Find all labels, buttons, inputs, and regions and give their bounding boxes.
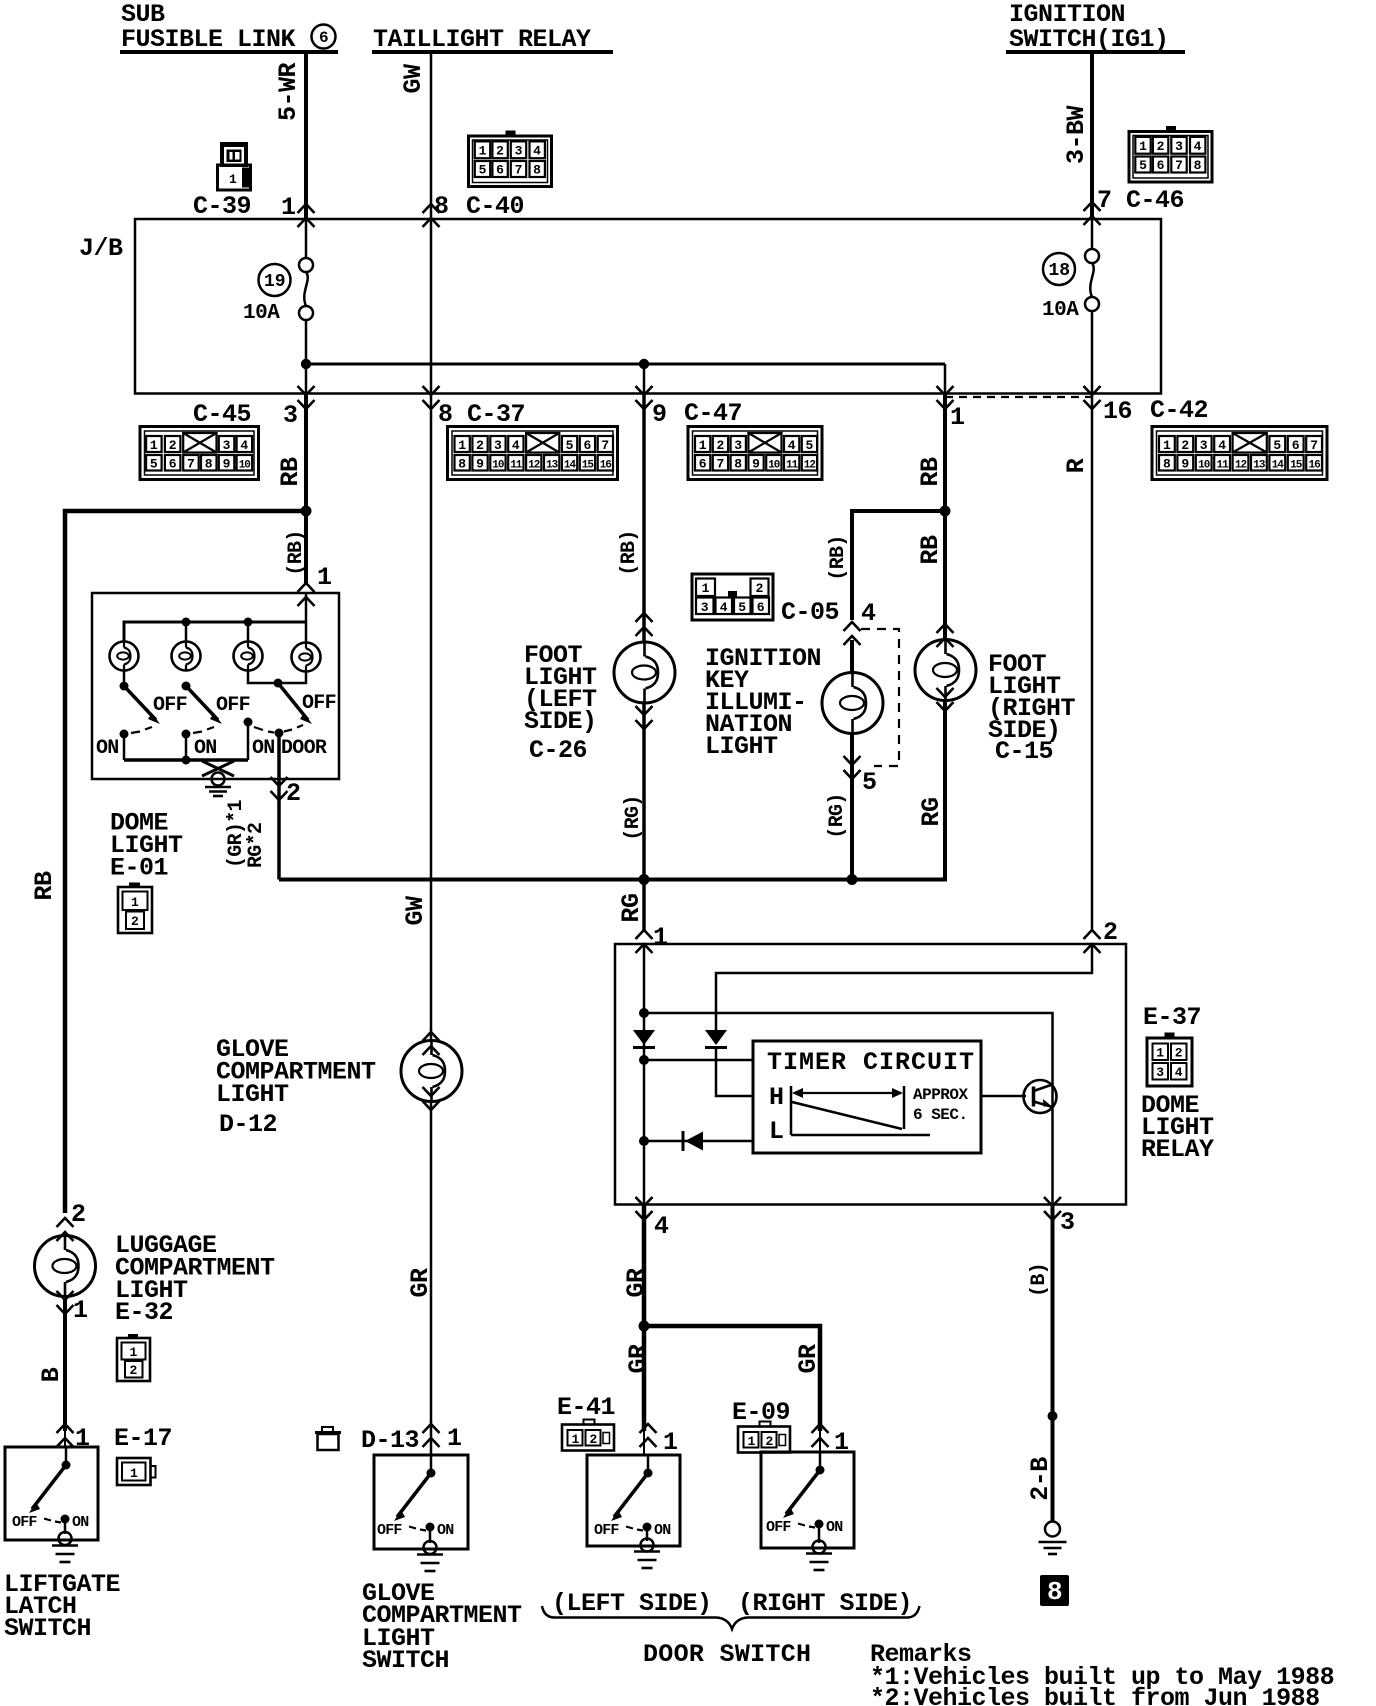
ignition key illumination bulb [850, 640, 854, 673]
dome bottom bus [124, 758, 248, 762]
svg-text:1: 1 [663, 1428, 678, 1457]
connector E-17 icon [117, 1458, 156, 1485]
svg-text:(RG): (RG) [826, 793, 849, 838]
svg-text:C-46: C-46 [1126, 186, 1184, 215]
svg-text:11: 11 [1216, 460, 1229, 472]
svg-text:APPROX: APPROX [913, 1086, 969, 1104]
svg-text:SWITCH: SWITCH [4, 1614, 91, 1643]
svg-text:2: 2 [71, 1200, 86, 1229]
svg-text:RELAY: RELAY [1141, 1135, 1214, 1164]
svg-text:5: 5 [150, 457, 158, 472]
brace [542, 1606, 920, 1629]
svg-text:DOOR: DOOR [281, 737, 327, 760]
svg-text:3: 3 [283, 401, 298, 430]
svg-text:1: 1 [1163, 438, 1171, 453]
dome light relay box [615, 944, 1126, 1205]
label LIFTGATE LATCH SWITCH [4, 1570, 120, 1643]
transistor Q1 [981, 1080, 1057, 1113]
label DOME LIGHT E-01 [110, 809, 183, 883]
svg-text:9: 9 [652, 400, 667, 429]
svg-text:RB: RB [30, 871, 59, 901]
svg-text:H: H [769, 1083, 784, 1112]
svg-text:1: 1 [653, 923, 668, 952]
svg-text:2: 2 [756, 581, 764, 596]
ground E-09 [806, 1554, 832, 1571]
svg-text:4: 4 [654, 1212, 669, 1241]
svg-text:13: 13 [546, 460, 559, 472]
svg-text:B: B [37, 1367, 66, 1382]
svg-text:8: 8 [438, 400, 453, 429]
svg-text:3: 3 [1175, 139, 1183, 154]
svg-text:1: 1 [281, 193, 296, 222]
svg-text:DOOR SWITCH: DOOR SWITCH [643, 1640, 811, 1669]
connector E-41 icon [562, 1420, 614, 1451]
svg-text:RB: RB [916, 457, 945, 487]
svg-text:11: 11 [510, 460, 523, 472]
svg-text:1: 1 [1156, 1046, 1164, 1061]
glove compartment light bulb D-12 [423, 1032, 440, 1055]
svg-text:*2:Vehicles built from Jun 198: *2:Vehicles built from Jun 1988 [870, 1684, 1320, 1706]
svg-text:E-41: E-41 [557, 1393, 615, 1422]
svg-text:2: 2 [1181, 438, 1189, 453]
svg-text:5: 5 [566, 438, 574, 453]
label TAILLIGHT RELAY [372, 25, 613, 54]
svg-text:5: 5 [1273, 438, 1281, 453]
svg-text:1: 1 [317, 563, 332, 592]
svg-text:C-05: C-05 [781, 598, 839, 627]
svg-text:7: 7 [187, 457, 195, 472]
svg-text:5: 5 [479, 163, 487, 178]
svg-text:C-37: C-37 [467, 400, 525, 429]
svg-text:SIDE): SIDE) [524, 707, 597, 736]
svg-text:GW: GW [401, 896, 430, 926]
svg-text:1: 1 [130, 1466, 138, 1481]
dome bulb 1 [110, 642, 139, 671]
svg-text:5: 5 [738, 600, 746, 615]
svg-text:1: 1 [572, 1432, 580, 1447]
svg-text:L: L [769, 1117, 784, 1146]
foot light (left side) bulb C-26 [614, 642, 675, 703]
svg-text:12: 12 [1235, 460, 1247, 472]
wire RB from C-42 pin 1 [943, 394, 947, 642]
svg-text:RG: RG [617, 893, 646, 922]
svg-text:8: 8 [434, 192, 449, 221]
ground terminal bottom right [1039, 1522, 1067, 1555]
svg-text:C-26: C-26 [529, 736, 587, 765]
svg-text:6: 6 [699, 457, 707, 472]
wire inside J/B left [305, 219, 308, 258]
liftgate latch switch box [5, 1447, 98, 1540]
svg-text:9: 9 [752, 457, 760, 472]
svg-text:C-15: C-15 [995, 737, 1053, 766]
connector E-37 icon [1147, 1033, 1192, 1087]
relay pin 1 [642, 880, 646, 931]
wire GR down to D-13 [430, 1102, 433, 1456]
svg-text:1: 1 [130, 1345, 138, 1360]
svg-text:1: 1 [229, 172, 237, 187]
wire inside J/B right [1091, 219, 1094, 249]
svg-text:RB: RB [276, 457, 305, 487]
svg-text:1: 1 [447, 1424, 462, 1453]
svg-text:10: 10 [768, 460, 780, 472]
dome switch 3 (door) [244, 683, 336, 760]
svg-text:10: 10 [1198, 460, 1210, 472]
svg-text:D-13: D-13 [361, 1426, 419, 1455]
svg-text:SWITCH(IG1): SWITCH(IG1) [1009, 25, 1169, 54]
svg-text:6: 6 [583, 438, 591, 453]
svg-text:GR: GR [624, 1344, 653, 1374]
wire 3-BW from ignition switch [1090, 52, 1094, 219]
svg-text:C-40: C-40 [466, 192, 524, 221]
svg-text:2: 2 [130, 1363, 138, 1378]
label DOME LIGHT RELAY [1141, 1091, 1214, 1164]
wire B to liftgate switch [63, 1297, 67, 1431]
svg-text:4: 4 [1218, 438, 1226, 453]
wire GR branch to right door switch [644, 1326, 820, 1431]
svg-text:6 SEC.: 6 SEC. [913, 1106, 968, 1124]
diode D2 [705, 1030, 727, 1048]
svg-text:7: 7 [1310, 438, 1318, 453]
junction node RB [301, 506, 312, 517]
svg-text:J/B: J/B [79, 234, 123, 263]
svg-text:15: 15 [582, 460, 595, 472]
svg-text:7: 7 [1175, 158, 1183, 173]
svg-text:SWITCH: SWITCH [362, 1646, 449, 1675]
svg-text:C-47: C-47 [684, 399, 742, 428]
svg-text:8: 8 [205, 457, 213, 472]
svg-text:6: 6 [169, 457, 177, 472]
svg-text:(RG): (RG) [622, 795, 645, 840]
ground reference box 8 [1040, 1575, 1069, 1607]
svg-text:8: 8 [458, 457, 466, 472]
dome bulb 4 [305, 622, 308, 643]
connector C-37 grid [448, 427, 618, 480]
svg-text:6: 6 [757, 600, 765, 615]
svg-text:E-17: E-17 [114, 1424, 172, 1453]
dome case ground [202, 761, 234, 796]
svg-text:OFF: OFF [153, 694, 187, 717]
svg-text:3: 3 [1156, 1065, 1164, 1080]
svg-text:8: 8 [1163, 457, 1171, 472]
dome bulb 2 [185, 622, 188, 642]
svg-text:10A: 10A [1042, 299, 1079, 322]
ground E-41 [634, 1552, 660, 1569]
svg-text:1: 1 [702, 581, 710, 596]
svg-text:10: 10 [239, 460, 251, 472]
svg-text:(RIGHT SIDE): (RIGHT SIDE) [738, 1589, 912, 1618]
wire GW through J/B [430, 219, 433, 394]
svg-text:8: 8 [1194, 158, 1202, 173]
svg-text:1: 1 [458, 438, 466, 453]
svg-text:GR: GR [794, 1344, 823, 1374]
svg-text:2-B: 2-B [1026, 1457, 1055, 1501]
svg-text:(RB): (RB) [827, 535, 850, 580]
svg-text:1: 1 [748, 1434, 756, 1449]
svg-text:8: 8 [734, 457, 742, 472]
svg-text:5-WR: 5-WR [274, 63, 303, 122]
relay pin 3 [1044, 1197, 1061, 1220]
svg-text:LIGHT: LIGHT [216, 1080, 289, 1109]
bus bar inside J/B [306, 363, 945, 366]
timer graph [791, 1086, 930, 1135]
glove compartment light switch box [374, 1455, 468, 1549]
svg-text:OFF: OFF [302, 692, 336, 715]
svg-text:C-39: C-39 [193, 192, 251, 221]
svg-text:1: 1 [479, 144, 487, 159]
wire GR from relay pin 4 [642, 1205, 647, 1432]
svg-text:3: 3 [734, 438, 742, 453]
label FOOT LIGHT (RIGHT SIDE) C-15 [988, 650, 1076, 766]
svg-text:6: 6 [319, 29, 328, 47]
connector E-01 icon [118, 883, 152, 934]
svg-text:1: 1 [150, 438, 158, 453]
svg-text:C-45: C-45 [193, 400, 251, 429]
svg-text:OFF: OFF [216, 694, 250, 717]
svg-text:4: 4 [240, 438, 248, 453]
svg-text:2: 2 [131, 914, 139, 929]
door switch left box [587, 1455, 680, 1546]
svg-text:1: 1 [75, 1424, 90, 1453]
svg-text:8: 8 [533, 163, 541, 178]
svg-text:10: 10 [492, 460, 504, 472]
connector C-05 icon [692, 574, 773, 620]
svg-text:1: 1 [699, 438, 707, 453]
connector C-42 grid [1152, 427, 1327, 480]
svg-text:14: 14 [564, 460, 577, 472]
svg-text:GR: GR [406, 1268, 435, 1298]
junction node RB right [940, 506, 951, 517]
fuse 19 10A [299, 258, 313, 320]
svg-text:2: 2 [716, 438, 724, 453]
svg-text:5: 5 [862, 768, 877, 797]
svg-text:9: 9 [223, 457, 231, 472]
svg-text:18: 18 [1049, 261, 1071, 281]
connector C-39 icon [218, 142, 251, 190]
svg-text:12: 12 [804, 460, 816, 472]
ground D-13 [417, 1555, 443, 1572]
svg-text:2: 2 [766, 1434, 774, 1449]
svg-text:16: 16 [1103, 397, 1132, 426]
svg-text:3: 3 [1200, 438, 1208, 453]
svg-text:C-42: C-42 [1150, 396, 1208, 425]
label IGNITION KEY ILLUMINATION LIGHT [705, 644, 821, 761]
dome light E-01 box [92, 593, 339, 779]
svg-text:3: 3 [1060, 1208, 1075, 1237]
wire branch to ignition key light [852, 511, 945, 620]
svg-text:1: 1 [131, 895, 139, 910]
wire (RG) down to bus [642, 703, 646, 880]
connector C-40 icon [469, 131, 552, 187]
dome pin 2 wire [277, 733, 281, 880]
connector E-32 icon [117, 1334, 150, 1381]
dome light pin 1 arrows [298, 583, 315, 606]
svg-text:E-37: E-37 [1143, 1003, 1201, 1032]
label Remarks [870, 1640, 1334, 1706]
ground liftgate [52, 1546, 78, 1563]
svg-text:1: 1 [1139, 139, 1147, 154]
svg-text:R: R [1062, 458, 1091, 473]
svg-text:2: 2 [590, 1432, 598, 1447]
svg-text:1: 1 [73, 1296, 88, 1325]
svg-text:4: 4 [720, 600, 728, 615]
wire 5-WR from fusible link [304, 52, 308, 219]
svg-text:(RB): (RB) [618, 530, 641, 575]
svg-text:TAILLIGHT RELAY: TAILLIGHT RELAY [373, 25, 591, 54]
svg-text:2: 2 [1175, 1046, 1183, 1061]
relay pin 2 wire R [1091, 394, 1094, 931]
svg-text:D-12: D-12 [219, 1110, 277, 1139]
diode D1 [633, 1030, 655, 1048]
svg-text:FUSIBLE LINK: FUSIBLE LINK [121, 25, 296, 54]
dome bulb 3 [247, 622, 250, 642]
svg-text:TIMER CIRCUIT: TIMER CIRCUIT [767, 1048, 975, 1077]
RG bus wire [279, 700, 945, 880]
svg-text:(RB): (RB) [285, 530, 308, 575]
svg-text:9: 9 [1181, 457, 1189, 472]
fuse 18 10A [1085, 249, 1099, 311]
bulb3-bulb4 link [248, 671, 306, 684]
svg-text:3-BW: 3-BW [1062, 106, 1091, 165]
wire RG down to bus [943, 700, 947, 880]
svg-text:16: 16 [600, 460, 612, 472]
foot light (right side) bulb C-15 [915, 640, 976, 701]
wire B/2-B from relay pin 3 [1051, 1205, 1055, 1522]
timer circuit box [753, 1041, 981, 1153]
svg-text:3: 3 [223, 438, 231, 453]
svg-text:ON: ON [252, 737, 275, 760]
svg-text:10A: 10A [243, 302, 280, 325]
svg-text:RG*2: RG*2 [245, 823, 268, 868]
connector arrows out of J/B bottom [298, 386, 315, 409]
wire GW mid [430, 394, 433, 1042]
svg-text:E-09: E-09 [732, 1398, 790, 1427]
luggage compartment light bulb E-32 [57, 1218, 74, 1241]
svg-text:3: 3 [701, 600, 709, 615]
connector arrows into J/B top [298, 204, 315, 227]
relay internal wires [643, 944, 646, 1205]
svg-text:2: 2 [1157, 139, 1165, 154]
svg-text:2: 2 [1103, 918, 1118, 947]
svg-text:4: 4 [1175, 1065, 1183, 1080]
svg-text:9: 9 [476, 457, 484, 472]
svg-text:16: 16 [1308, 460, 1320, 472]
svg-text:ON: ON [194, 737, 217, 760]
dashed connector link C-42 pins 1-16 [945, 396, 1092, 398]
door switch right box [761, 1452, 854, 1548]
svg-text:GR: GR [622, 1268, 651, 1298]
svg-text:2: 2 [286, 779, 301, 808]
svg-text:E-01: E-01 [110, 854, 168, 883]
label GLOVE COMPARTMENT LIGHT D-12 [216, 1035, 376, 1139]
label LUGGAGE COMPARTMENT LIGHT E-32 [115, 1231, 275, 1327]
svg-text:RG: RG [917, 797, 946, 826]
svg-text:(B): (B) [1028, 1263, 1051, 1297]
wire (RG) down to bus [850, 734, 854, 880]
svg-text:3: 3 [494, 438, 502, 453]
junction block J/B [135, 219, 1161, 394]
svg-text:5: 5 [1139, 158, 1147, 173]
svg-text:E-32: E-32 [115, 1298, 173, 1327]
wire into dome light [305, 593, 308, 622]
dome light bus [124, 622, 306, 642]
svg-text:19: 19 [264, 272, 286, 292]
wire RB branch to left [65, 511, 306, 1213]
svg-text:7: 7 [601, 438, 609, 453]
svg-text:6: 6 [1157, 158, 1165, 173]
svg-text:6: 6 [1292, 438, 1300, 453]
svg-text:4: 4 [512, 438, 520, 453]
svg-text:2: 2 [496, 144, 504, 159]
connector E-09 icon [738, 1422, 790, 1453]
svg-text:7: 7 [515, 163, 523, 178]
svg-text:LIGHT: LIGHT [705, 732, 778, 761]
svg-text:(LEFT SIDE): (LEFT SIDE) [552, 1589, 712, 1618]
label FOOT LIGHT (LEFT SIDE) C-26 [524, 641, 597, 765]
D-13 marker icon [315, 1427, 341, 1450]
diode D3 [683, 1131, 703, 1151]
svg-text:1: 1 [950, 403, 965, 432]
svg-text:4: 4 [533, 144, 541, 159]
svg-text:ON: ON [96, 737, 119, 760]
svg-text:15: 15 [1290, 460, 1303, 472]
wire RB from C-45 pin 3 [304, 394, 308, 584]
connector C-45 grid [140, 427, 259, 480]
label GLOVE COMPARTMENT LIGHT SWITCH [362, 1579, 522, 1675]
wire GW from taillight relay [430, 52, 433, 219]
svg-text:3: 3 [515, 144, 523, 159]
wire (RB) from C-47 pin 9 [642, 394, 646, 642]
connector C-47 grid [688, 427, 822, 480]
svg-text:5: 5 [805, 438, 813, 453]
svg-text:7: 7 [716, 457, 724, 472]
svg-text:GW: GW [399, 64, 428, 94]
svg-text:4: 4 [1194, 139, 1202, 154]
dashed connector C-05 pins 4-5 [861, 629, 899, 766]
svg-text:4: 4 [861, 599, 876, 628]
relay pin 4 [636, 1197, 653, 1220]
svg-text:4: 4 [788, 438, 796, 453]
svg-text:12: 12 [528, 460, 540, 472]
svg-text:13: 13 [1253, 460, 1266, 472]
svg-text:8: 8 [1047, 1577, 1063, 1607]
label IGNITION SWITCH(IG1) [1006, 0, 1185, 54]
label SUB FUSIBLE LINK 6 [120, 0, 338, 54]
svg-text:RB: RB [916, 535, 945, 565]
dome switch 1 [96, 671, 187, 761]
dome switch 2 [182, 682, 250, 761]
svg-text:6: 6 [496, 163, 504, 178]
svg-text:2: 2 [169, 438, 177, 453]
connector C-46 icon [1129, 126, 1212, 182]
svg-text:11: 11 [786, 460, 799, 472]
svg-text:14: 14 [1272, 460, 1285, 472]
svg-text:2: 2 [476, 438, 484, 453]
